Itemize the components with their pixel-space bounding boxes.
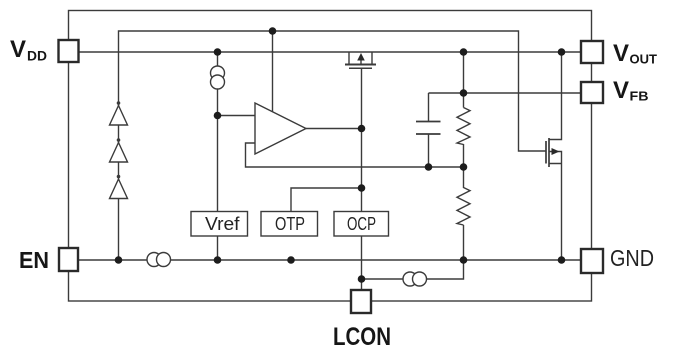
wire divider chain x=463.5	[463, 52, 465, 260]
transistor M1 body	[345, 60, 376, 68]
wire op-amp minus feedback	[246, 143, 464, 167]
label VOUT	[613, 40, 657, 67]
capacitor C1 plates	[416, 122, 441, 135]
transistor M2 arrow	[552, 148, 560, 155]
pin LCON	[351, 290, 371, 313]
svg-text:GND: GND	[610, 245, 654, 271]
diode D3	[110, 179, 128, 199]
resistor R2	[457, 188, 470, 226]
wire op-amp top feed	[272, 31, 274, 113]
transistor M1 leads	[349, 52, 372, 64]
wire op-amp plus input	[218, 115, 256, 117]
pin VFB	[581, 82, 603, 103]
junction feedback / capacitor	[425, 163, 433, 171]
svg-text:V: V	[613, 77, 629, 104]
transistor M1 arrow	[357, 53, 365, 61]
diode D1	[110, 106, 128, 126]
junction VDD rail / M2 drain	[558, 48, 566, 56]
wire LCON current sense	[362, 260, 464, 279]
pin VOUT	[581, 41, 603, 63]
block Vref	[191, 212, 248, 237]
wire OCP to LCON	[361, 236, 363, 290]
junction GND rail / divider bottom	[460, 256, 468, 264]
inductor L1 (EN rail)	[147, 253, 171, 267]
resistor R1	[457, 108, 470, 145]
junction bias line / op-amp feed	[269, 27, 277, 35]
wire VDD rail y=52	[79, 51, 582, 53]
IC outline border	[69, 11, 592, 302]
svg-text:V: V	[613, 40, 629, 67]
wire M1 gate to OCP	[361, 68, 363, 212]
wire Vref chain x=217.5	[217, 52, 219, 212]
svg-text:DD: DD	[27, 48, 47, 64]
pin GND	[581, 249, 603, 273]
svg-text:Vref: Vref	[205, 214, 241, 234]
transistor M2 drain lead	[549, 52, 562, 140]
label VDD	[10, 36, 47, 64]
svg-text:LCON: LCON	[333, 323, 391, 351]
wire bias top y=31 to M2 gate	[119, 31, 547, 260]
pin EN	[59, 248, 78, 271]
junction EN rail / Vref	[214, 256, 222, 264]
svg-text:OTP: OTP	[275, 214, 305, 234]
current source I1	[211, 66, 225, 89]
junction op-amp output / M1 gate	[358, 125, 366, 133]
diode D3 apex mark	[117, 175, 121, 179]
junction current source / op-amp plus	[214, 112, 222, 120]
wire VFB line y=93	[429, 92, 582, 94]
inductor L2 (LCON sense)	[403, 272, 427, 286]
block OCP	[334, 212, 389, 237]
junction VDD rail / current source	[214, 48, 222, 56]
diode D1 apex mark	[117, 101, 121, 105]
junction OCP line / OTP branch	[358, 184, 366, 192]
pin VDD	[59, 40, 79, 62]
junction feedback / divider mid	[460, 163, 468, 171]
svg-text:EN: EN	[19, 247, 49, 273]
svg-text:V: V	[10, 36, 26, 63]
svg-text:OUT: OUT	[630, 52, 658, 67]
diode D2	[110, 143, 128, 163]
wire EN-GND rail y=260	[79, 259, 582, 261]
wire capacitor C1 leads	[428, 93, 430, 167]
wire OTP feed	[291, 188, 362, 212]
wire Vref to rail	[217, 236, 219, 260]
junction VFB line / divider	[460, 89, 468, 97]
transistor M2 body	[546, 138, 549, 167]
svg-text:FB: FB	[630, 89, 649, 104]
wire op-amp output	[306, 128, 362, 130]
svg-text:OCP: OCP	[347, 214, 376, 234]
junction EN rail / diode chain	[115, 256, 123, 264]
diode D2 apex mark	[117, 138, 121, 142]
block OTP	[261, 212, 318, 237]
label VFB	[613, 77, 649, 104]
junction VDD rail / divider top	[460, 48, 468, 56]
junction GND rail / M2 source	[558, 256, 566, 264]
junction LCON node	[358, 275, 366, 283]
junction EN rail / OTP	[287, 256, 295, 264]
transistor M2 source/bulk leads	[549, 152, 562, 261]
op-amp U1	[255, 103, 306, 154]
